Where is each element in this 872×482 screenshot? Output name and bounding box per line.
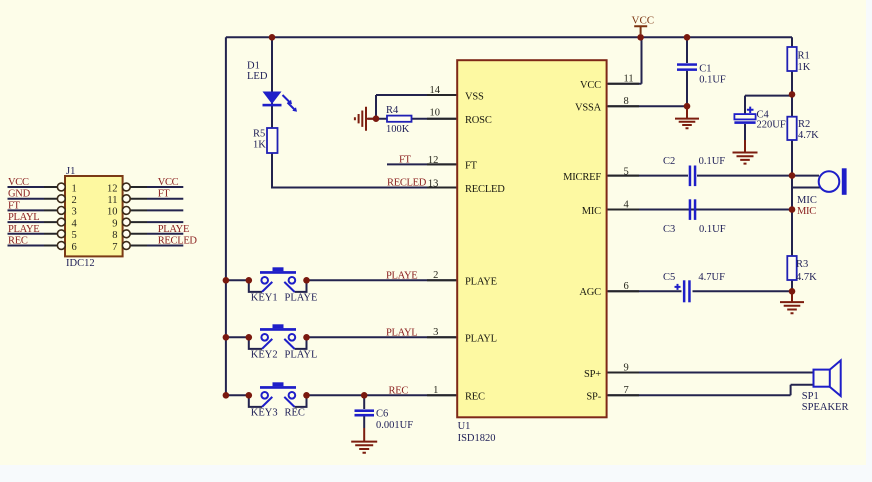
svg-text:VSS: VSS [465,91,484,102]
svg-text:PLAYL: PLAYL [465,334,497,345]
svg-text:MIC: MIC [582,206,601,217]
svg-text:C1: C1 [699,64,711,75]
svg-text:FT: FT [158,189,171,200]
svg-text:0.1UF: 0.1UF [699,224,726,235]
svg-text:RECLED: RECLED [158,236,198,247]
svg-text:7: 7 [624,385,629,396]
svg-text:GND: GND [8,189,31,200]
svg-text:C2: C2 [663,156,675,167]
svg-text:ISD1820: ISD1820 [458,433,496,444]
svg-text:RECLED: RECLED [465,184,505,195]
svg-text:0.1UF: 0.1UF [699,156,726,167]
svg-text:KEY3: KEY3 [251,408,278,419]
svg-text:R5: R5 [253,129,265,140]
svg-text:7: 7 [112,242,117,253]
svg-text:PLAYL: PLAYL [386,328,417,339]
svg-text:8: 8 [112,230,117,241]
svg-text:8: 8 [624,96,629,107]
svg-text:3: 3 [72,207,77,218]
svg-text:10: 10 [107,207,118,218]
svg-text:5: 5 [624,166,629,177]
svg-text:14: 14 [430,85,441,96]
svg-text:1K: 1K [798,62,811,73]
svg-text:3: 3 [433,327,438,338]
svg-text:10: 10 [430,108,441,119]
svg-text:SPEAKER: SPEAKER [802,402,849,413]
svg-text:1: 1 [72,183,77,194]
svg-text:12: 12 [107,183,118,194]
svg-text:R4: R4 [386,105,399,116]
svg-text:VCC: VCC [158,177,179,188]
svg-text:SP+: SP+ [584,369,601,380]
svg-text:2: 2 [72,195,77,206]
svg-text:C6: C6 [376,409,388,420]
svg-text:MIC: MIC [797,206,816,217]
svg-text:IDC12: IDC12 [66,258,95,269]
svg-text:1: 1 [433,385,438,396]
svg-text:J1: J1 [66,166,75,177]
svg-text:REC: REC [465,392,485,403]
svg-text:R1: R1 [798,51,810,62]
svg-text:0.001UF: 0.001UF [376,420,413,431]
svg-text:ROSC: ROSC [465,115,492,126]
svg-text:5: 5 [72,230,77,241]
svg-text:KEY1: KEY1 [251,293,278,304]
svg-text:VCC: VCC [8,177,29,188]
svg-text:REC: REC [389,386,409,397]
svg-text:PLAYE: PLAYE [386,271,417,282]
svg-text:4.7K: 4.7K [796,272,817,283]
svg-text:SP1: SP1 [802,391,819,402]
svg-text:REC: REC [285,408,305,419]
svg-text:PLAYE: PLAYE [8,224,39,235]
svg-text:LED: LED [247,71,268,82]
svg-text:RECLED: RECLED [387,178,427,189]
svg-text:6: 6 [72,242,77,253]
svg-text:4: 4 [72,218,78,229]
svg-text:PLAYL: PLAYL [285,350,318,361]
svg-text:11: 11 [624,74,634,85]
svg-text:4.7K: 4.7K [798,130,819,141]
svg-text:VCC: VCC [580,80,601,91]
svg-text:4: 4 [624,199,630,210]
svg-text:9: 9 [624,362,629,373]
svg-text:REC: REC [8,236,28,247]
svg-text:C3: C3 [663,224,675,235]
svg-text:PLAYE: PLAYE [158,224,189,235]
svg-text:12: 12 [428,155,439,166]
svg-text:MICREF: MICREF [563,172,601,183]
svg-text:FT: FT [465,161,478,172]
svg-text:6: 6 [624,281,629,292]
svg-text:100K: 100K [386,124,410,135]
svg-text:MIC: MIC [797,195,817,206]
svg-text:2: 2 [433,270,438,281]
svg-text:FT: FT [8,200,21,211]
svg-text:SP-: SP- [586,392,601,403]
svg-text:PLAYE: PLAYE [285,293,318,304]
svg-text:R2: R2 [798,119,810,130]
svg-text:D1: D1 [247,61,260,72]
svg-text:220UF: 220UF [757,120,786,131]
svg-text:KEY2: KEY2 [251,350,278,361]
svg-text:4.7UF: 4.7UF [698,272,725,283]
svg-text:C5: C5 [663,272,675,283]
svg-text:9: 9 [112,218,117,229]
svg-text:PLAYE: PLAYE [465,277,497,288]
svg-text:U1: U1 [458,421,471,432]
svg-text:PLAYL: PLAYL [8,212,39,223]
svg-text:0.1UF: 0.1UF [699,75,726,86]
svg-text:VSSA: VSSA [575,103,602,114]
svg-text:AGC: AGC [579,287,601,298]
svg-text:R3: R3 [796,259,808,270]
svg-text:FT: FT [399,155,412,166]
svg-text:VCC: VCC [632,15,655,27]
svg-text:13: 13 [428,178,439,189]
svg-text:11: 11 [107,195,117,206]
svg-text:1K: 1K [253,140,266,151]
